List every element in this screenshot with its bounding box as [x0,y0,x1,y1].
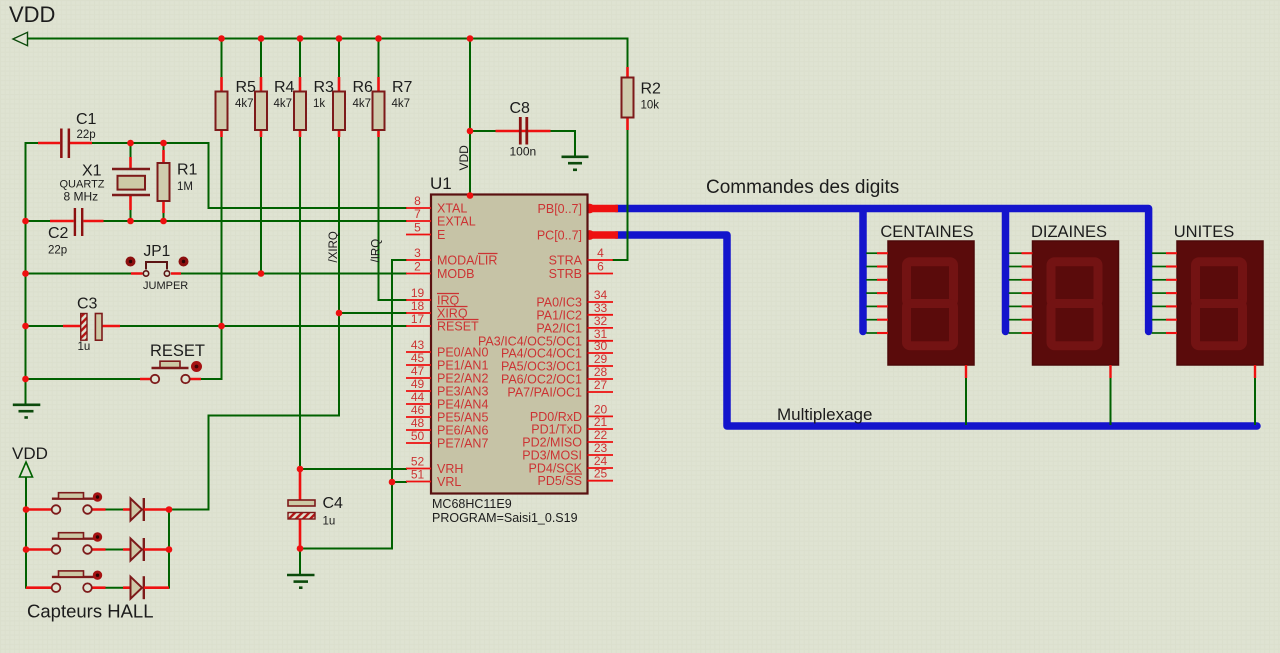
svg-text:Multiplexage: Multiplexage [777,405,872,424]
svg-text:PD1/TxD: PD1/TxD [531,423,582,437]
pin 31 PA3/IC4/OC5/OC1 stub [588,340,614,342]
svg-text:51: 51 [411,468,425,482]
wire segment pin [1152,319,1166,321]
pin 3 MODA/LIR stub [406,259,431,261]
overline IRQ [437,293,459,295]
pin 45 PE1/AN1 stub [406,364,431,366]
svg-text:27: 27 [594,378,608,392]
svg-text:18: 18 [411,299,425,313]
wire segment pin [1152,332,1166,334]
wire MODA to VRL and C4 ground [300,260,406,549]
wire XIRQ [339,312,406,314]
junction dot [375,35,382,42]
wire segment pin [1152,292,1166,294]
svg-text:VRL: VRL [437,475,461,489]
svg-text:8: 8 [414,194,421,208]
svg-text:PB[0..7]: PB[0..7] [538,202,582,216]
junction dot [297,466,304,473]
svg-text:VDD: VDD [12,444,48,463]
hall push button 1 [26,492,131,514]
svg-text:U1: U1 [430,174,452,193]
pin 44 PE4/AN4 stub [406,403,431,405]
svg-text:33: 33 [594,301,608,315]
svg-text:STRA: STRA [549,254,583,268]
pin 22 PD2/MISO stub [588,441,614,443]
bus entry PC red stub [589,231,618,239]
junction dot [467,128,474,135]
wire segment pin [1009,266,1022,268]
wire hall diodes common vertical [168,510,170,588]
resistor R2 [622,67,634,130]
svg-text:R1: R1 [177,162,198,179]
wire R3 to VRH/C4 [299,137,301,469]
wire VRL [392,481,406,483]
wire R2 branch to STRA [627,39,629,68]
bus PB[0..7] to digit anodes [616,209,1149,332]
overline XIRQ [437,306,468,308]
svg-text:C1: C1 [76,111,97,128]
svg-text:4k7: 4k7 [274,98,293,110]
pin 50 PE7/AN7 stub [406,442,431,444]
svg-text:4k7: 4k7 [353,98,372,110]
svg-text:PA7/PAI/OC1: PA7/PAI/OC1 [507,386,582,400]
hall push button 3 [26,571,131,593]
svg-text:PA1/IC2: PA1/IC2 [536,308,582,322]
hall push button 2 [26,532,131,554]
svg-text:R3: R3 [314,79,335,96]
wire left vertical rail [25,143,27,404]
svg-text:47: 47 [411,364,425,378]
wire segment pin [866,252,877,254]
wire C4 to ground [299,549,301,575]
svg-text:6: 6 [597,260,604,274]
svg-text:4k7: 4k7 [392,98,411,110]
resistor R5 [216,39,228,138]
svg-text:PA2/IC1: PA2/IC1 [536,321,582,335]
svg-text:R6: R6 [353,79,374,96]
svg-text:100n: 100n [510,145,537,159]
svg-text:JUMPER: JUMPER [143,280,188,292]
wire segment pin [1009,292,1022,294]
junction dot [218,323,225,330]
svg-text:PROGRAM=Saisi1_0.S19: PROGRAM=Saisi1_0.S19 [432,511,578,525]
7-segment display DIZAINES [1009,241,1119,425]
overline RESET [437,319,479,321]
wire segment pin [1152,279,1166,281]
svg-text:R2: R2 [641,81,662,98]
capacitor C2 [50,208,104,236]
resistor R1 [158,143,170,221]
pin 7 EXTAL stub [406,220,431,222]
junction dot [127,218,134,225]
junction dot [166,546,173,553]
display common pin [1109,365,1111,378]
junction dot [23,506,30,513]
pin 20 PD0/RxD stub [588,415,614,417]
pin 49 PE3/AN3 stub [406,390,431,392]
pin 52 VRH stub [406,468,431,470]
svg-text:PD5/SS: PD5/SS [538,474,582,488]
wire R4 to MODB [260,137,262,274]
svg-text:1M: 1M [177,181,193,193]
svg-text:45: 45 [411,351,425,365]
capacitor C1 [38,129,92,159]
svg-text:32: 32 [594,314,608,328]
wire C1/XTAL net [26,143,407,208]
svg-text:43: 43 [411,338,425,352]
wire RESET button net [26,137,222,379]
junction dot [336,35,343,42]
svg-text:22: 22 [594,428,608,442]
wire segment pin [1009,319,1022,321]
svg-text:PE2/AN2: PE2/AN2 [437,372,488,386]
junction dot [218,35,225,42]
svg-text:XTAL: XTAL [437,202,467,216]
wire segment pin [1009,279,1022,281]
wire VRH net [300,468,406,470]
svg-text:PC[0..7]: PC[0..7] [537,229,582,243]
resistor R4 [255,39,267,138]
svg-text:PE6/AN6: PE6/AN6 [437,424,488,438]
wire segment pin [1009,332,1022,334]
bus entry PB red stub [589,205,618,213]
hall diode 2 [131,538,170,561]
junction dot [258,270,265,277]
pin 17 RESET stub [406,325,431,327]
svg-text:PE7/AN7: PE7/AN7 [437,437,488,451]
pin 32 PA2/IC1 stub [588,327,614,329]
junction dot [127,140,134,147]
svg-text:PA4/OC4/OC1: PA4/OC4/OC1 [501,347,582,361]
svg-text:44: 44 [411,390,425,404]
pin 8 XTAL stub [406,207,431,209]
svg-text:Commandes des digits: Commandes des digits [706,177,899,198]
svg-text:30: 30 [594,339,608,353]
svg-text:PD3/MOSI: PD3/MOSI [522,449,582,463]
resistor R6 [333,39,345,138]
VDD power arrow bottom [20,462,33,477]
svg-text:17: 17 [411,312,425,326]
wire hall row1 to XIRQ riser [169,509,209,511]
svg-text:IRQ: IRQ [437,294,460,308]
pin 29 PA5/OC3/OC1 stub [588,365,614,367]
svg-text:UNITES: UNITES [1174,223,1235,241]
display common pin [965,365,967,378]
svg-text:Capteurs HALL: Capteurs HALL [27,601,153,622]
junction dot [297,35,304,42]
junction dot [297,545,304,552]
svg-text:/IRQ: /IRQ [371,239,383,263]
pin 28 PA6/OC2/OC1 stub [588,378,614,380]
pin 2 MODB stub [406,273,431,275]
wire segment pin [866,319,877,321]
pin 51 VRL stub [406,481,431,483]
svg-text:RESET: RESET [437,320,479,334]
capacitor C4 polarized [288,469,315,549]
svg-text:R5: R5 [236,79,257,96]
svg-text:DIZAINES: DIZAINES [1031,223,1107,241]
wire C3/RESET net [26,325,407,327]
pin 47 PE2/AN2 stub [406,377,431,379]
wire C8 net [551,131,576,155]
chip VDD pin dot [467,192,474,199]
svg-text:MC68HC11E9: MC68HC11E9 [432,497,512,511]
junction dot [160,218,167,225]
svg-text:4: 4 [597,246,604,260]
svg-text:52: 52 [411,455,425,469]
wire segment pin [866,292,877,294]
svg-text:EXTAL: EXTAL [437,215,476,229]
ground left [13,405,41,418]
junction dot [166,506,173,513]
capacitor C8 [470,117,551,145]
svg-text:PA5/OC3/OC1: PA5/OC3/OC1 [501,360,582,374]
svg-text:X1: X1 [82,163,102,180]
svg-text:PA6/OC2/OC1: PA6/OC2/OC1 [501,373,582,387]
svg-text:5: 5 [414,221,421,235]
svg-text:4k7: 4k7 [235,98,254,110]
svg-text:3: 3 [414,246,421,260]
junction dot [258,35,265,42]
svg-text:C8: C8 [510,100,531,117]
svg-text:VRH: VRH [437,462,463,476]
7-segment display UNITES [1152,241,1263,425]
pin 48 PE6/AN6 stub [406,429,431,431]
svg-text:22p: 22p [48,245,67,257]
wire segment pin [866,266,877,268]
svg-text:C4: C4 [323,495,344,512]
ground C4 [287,575,315,588]
wire JP1/MODB net [26,273,407,275]
capacitor C3 polarized [63,314,120,341]
pin 43 PE0/AN0 stub [406,351,431,353]
svg-text:CENTAINES: CENTAINES [880,223,973,241]
svg-text:MODB: MODB [437,267,475,281]
pin 5 E stub [406,234,431,236]
op-amp U1 microcontroller body MC68HC11E9 [431,195,588,494]
svg-text:PE5/AN5: PE5/AN5 [437,411,488,425]
pin 6 STRB stub [588,273,614,275]
push button RESET [140,361,202,383]
hall diode 3 [131,576,170,599]
wire C2/EXTAL net [26,220,407,222]
wire chip VDD pin [469,39,471,195]
svg-text:C3: C3 [77,296,98,313]
wire segment pin [1009,252,1022,254]
pin 30 PA4/OC4/OC1 stub [588,352,614,354]
wire segment pin [1152,252,1166,254]
ground C8 [562,157,589,170]
junction dot [22,270,29,277]
pin 24 PD4/SCK stub [588,467,614,469]
svg-text:1k: 1k [313,98,325,110]
svg-text:10k: 10k [641,100,660,112]
resistor R3 [294,39,306,138]
svg-text:MODA/LIR: MODA/LIR [437,254,497,268]
svg-text:VDD: VDD [9,2,55,27]
svg-text:VDD: VDD [457,145,471,171]
junction dot [389,479,396,486]
svg-text:XIRQ: XIRQ [437,307,468,321]
pin 21 PD1/TxD stub [588,428,614,430]
svg-text:R7: R7 [392,79,413,96]
pin 4 STRA stub [588,259,614,261]
wire R7 to IRQ [379,137,407,300]
svg-text:49: 49 [411,377,425,391]
crystal X1 [112,143,150,221]
display common pin [1254,365,1256,378]
wire VDD hall vertical [25,477,27,588]
svg-text:PE1/AN1: PE1/AN1 [437,359,488,373]
junction dot [336,310,343,317]
svg-text:PE4/AN4: PE4/AN4 [437,398,488,412]
svg-text:R4: R4 [274,79,295,96]
wire segment pin [866,305,877,307]
pin 23 PD3/MOSI stub [588,454,614,456]
pin 27 PA7/PAI/OC1 stub [588,391,614,393]
pin 25 PD5/SS stub [588,480,614,482]
svg-text:50: 50 [411,429,425,443]
svg-text:/XIRQ: /XIRQ [328,231,340,262]
svg-text:2: 2 [414,260,421,274]
svg-text:28: 28 [594,365,608,379]
svg-text:C2: C2 [48,225,69,242]
junction dot [22,323,29,330]
bus PC[0..7] multiplexage [616,235,1257,426]
svg-text:PD2/MISO: PD2/MISO [522,436,582,450]
pin 18 XIRQ stub [406,312,431,314]
wire R6 to XIRQ and hall sensors [209,137,340,510]
VDD power rail top [15,38,628,40]
svg-text:JP1: JP1 [144,243,171,260]
svg-text:RESET: RESET [150,342,205,360]
svg-text:E: E [437,228,445,242]
svg-text:STRB: STRB [549,267,582,281]
svg-text:PE3/AN3: PE3/AN3 [437,385,488,399]
svg-text:48: 48 [411,416,425,430]
resistor R7 [373,39,385,138]
svg-text:1u: 1u [78,341,91,353]
svg-text:23: 23 [594,441,608,455]
wire segment pin [866,332,877,334]
overline LIR [478,253,498,255]
wire segment pin [1152,266,1166,268]
pin 33 PA1/IC2 stub [588,314,614,316]
pin 34 PA0/IC3 stub [588,301,614,303]
svg-text:8 MHz: 8 MHz [64,190,99,204]
svg-text:29: 29 [594,352,608,366]
svg-text:19: 19 [411,286,425,300]
VDD arrow top-left [13,32,28,45]
wire segment pin [866,279,877,281]
svg-text:46: 46 [411,403,425,417]
svg-text:22p: 22p [77,129,96,141]
junction dot [23,546,30,553]
junction dot [160,140,167,147]
hall diode 1 [131,498,170,521]
junction dot [467,35,474,42]
pin 46 PE5/AN5 stub [406,416,431,418]
overline SS [567,473,583,475]
7-segment display CENTAINES [866,241,974,425]
jumper JP1 [126,257,189,277]
svg-text:7: 7 [414,207,421,221]
junction dot [22,376,29,383]
wire segment pin [1009,305,1022,307]
wire segment pin [1152,305,1166,307]
junction dot [22,218,29,225]
svg-text:1u: 1u [323,516,336,528]
pin 19 IRQ stub [406,299,431,301]
svg-text:21: 21 [594,415,608,429]
svg-text:25: 25 [594,467,608,481]
